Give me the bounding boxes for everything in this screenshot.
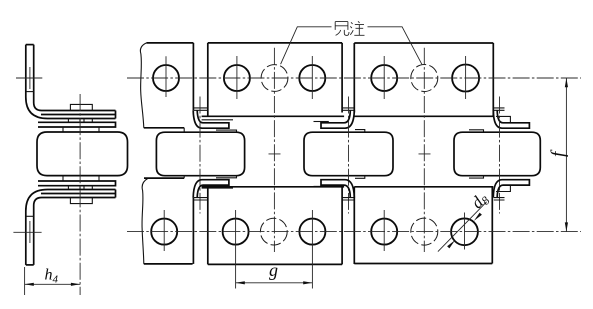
joint 2 bottom: bend curves [344,180,354,198]
top-right attachment plate [354,43,493,116]
holes in bottom-right plate [371,210,397,251]
upper bent attachment plate (side view) [26,45,116,119]
pin centerline joint 3 [499,97,501,214]
inner link plate (top, side view) [38,122,116,127]
joint 2 top: pin cap [343,108,355,110]
pin end cap (bottom, side view) [70,198,92,204]
joint 3 top: far-side foot [496,116,510,122]
bushing posts below roller (side view) [63,176,99,181]
leader to dashed hole (right) [368,27,422,64]
joint 2 top: bent foot tab [321,123,345,128]
dimension f line with arrows [565,78,568,232]
svg-text:g: g [269,260,278,280]
bottom hole row centerline [127,231,581,233]
bushing posts above roller (side view) [63,127,99,132]
svg-text:f: f [548,149,569,157]
outer link plate (bottom, side view) [41,190,116,198]
holes in bottom-middle plate [223,210,249,289]
holes in top-middle plate [224,56,250,99]
joint 1 top: far-side foot edge [202,119,233,121]
roller (side view) [37,132,128,176]
top plates bottom edge line [202,115,494,117]
joint 2 top: bend curves [344,110,354,128]
joint 2 bottom: pin cap [343,198,355,200]
svg-text:d8: d8 [467,189,492,214]
dimension d8 leader lines with arrows [438,202,487,252]
joint 1 top: bend curves [193,110,203,128]
bottom-right attachment plate [354,187,492,264]
leader to dashed hole (left) [281,27,332,64]
roller R3 [454,132,540,176]
side view vertical centerline [79,94,81,295]
optional hole (dashed) top-middle [261,65,288,92]
joint 3 bottom: inner plate edge [469,176,484,178]
joint 1 bottom: far-side foot edge [202,187,233,189]
middle hole column centerline (left) [273,48,275,252]
optional hole (dashed) bottom-right [411,218,438,245]
joint 3 bottom: far-side foot [496,186,510,192]
svg-text:h4: h4 [45,267,59,286]
joint 1 top: bent foot tab [202,123,229,128]
dimension h4 line with arrows [25,283,81,286]
bushings between plates (bottom, side view) [68,186,92,190]
chain centerline cross dashes [269,153,431,155]
top hole row centerline [127,77,581,79]
joint 1 bottom: pin cap [194,198,208,200]
joint 3 top: bend curves [493,110,503,128]
joint 2 top: inner plate edge [314,121,329,123]
middle hole column centerline (right) [423,48,425,252]
joint 3 bottom: pin cap [494,198,505,200]
roller R1 [156,132,244,176]
hole cross mark on upper leg [16,67,42,89]
bottom-left attachment plate (broken) [142,176,193,264]
joint 3 bottom: bend curves [493,180,503,198]
joint 3 top: pin cap [494,108,505,110]
dimension g line with arrows [236,281,313,284]
joint 3 top: inner plate edge [469,130,484,132]
joint 3 bottom: bent foot tab [502,180,529,185]
joint 1 bottom: bend curves [193,180,203,198]
inner link plate (bottom, side view) [38,181,116,186]
bottom-middle attachment plate [208,187,342,265]
pin end cap (top, side view) [70,104,92,110]
bushings between plates (top, side view) [68,119,92,123]
label 见注 (hand-drawn strokes) [335,21,364,35]
dimension h4 extension line [24,267,26,295]
holes in top-right plate [371,56,397,99]
joint 1 bottom: bent foot tab [202,180,229,185]
joint 3 top: bent foot tab [502,123,529,128]
optional hole (dashed) bottom-middle [260,218,287,245]
pin centerline joint 1 [199,97,201,214]
outer link plate (top, side view) [41,111,116,119]
roller R2 [304,132,393,176]
hole in top-left plate [153,56,179,97]
joint 1 top: pin cap [194,108,208,110]
hole cross mark on lower leg [13,221,41,243]
bottom plates top edge line [202,186,494,188]
optional hole (dashed) top-right [411,65,438,92]
joint 2 bottom: inner plate edge [314,185,329,187]
top-left attachment plate (broken) [140,43,193,132]
joint 1 top: inner plate edge [216,130,237,132]
lower bent attachment plate (side view) [26,190,116,265]
joint 2 bottom: bent foot tab [321,180,345,185]
pin centerline joint 2 [348,97,350,214]
hole in bottom-left plate [151,210,177,251]
joint 1 bottom: inner plate edge [216,176,237,178]
top-middle attachment plate [208,43,342,116]
